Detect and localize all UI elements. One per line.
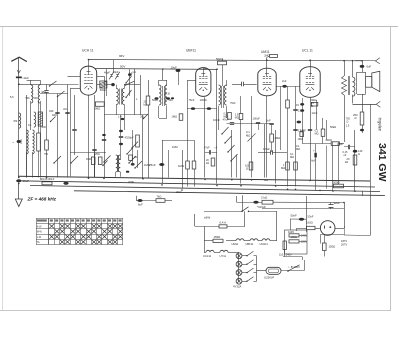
svg-text:50nF: 50nF — [291, 214, 298, 218]
mains plug — [320, 203, 344, 236]
svg-text:TA: TA — [37, 241, 40, 244]
svg-text:UBF11: UBF11 — [246, 242, 254, 246]
svg-text:2MΩ: 2MΩ — [264, 54, 269, 57]
svg-text:10 10: 10 10 — [164, 93, 171, 96]
svg-text:1MΩ: 1MΩ — [86, 158, 91, 161]
svg-text:40pF: 40pF — [104, 71, 110, 75]
wire UBF left pin — [188, 80, 197, 140]
wire bottom bus 3 — [30, 186, 380, 192]
wire x333 drop — [332, 142, 334, 191]
resistor 0.1MΩ diag — [246, 120, 252, 178]
svg-text:6uF: 6uF — [367, 65, 372, 69]
resistor 0.1MΩ b — [281, 162, 289, 170]
wire T2 drops — [159, 106, 168, 119]
trimmer labels band — [104, 71, 145, 119]
coil osc lower pair — [116, 155, 121, 177]
svg-text:500Ω: 500Ω — [100, 89, 106, 92]
cathode resistor cluster — [86, 153, 108, 166]
heater UBF11 — [246, 239, 263, 246]
wire x57 drop — [57, 94, 59, 178]
wire x370 to plug — [344, 234, 370, 237]
resistor 20kΩ b — [206, 158, 215, 166]
capacitor 25nF — [149, 140, 164, 184]
svg-text:kΩ: kΩ — [206, 162, 209, 165]
capacitor 47uF right — [337, 142, 355, 149]
svg-text:MΩ: MΩ — [296, 147, 300, 151]
svg-text:UCH 11: UCH 11 — [82, 49, 94, 53]
resistor 100Ω mains — [297, 220, 321, 231]
wire x275 drop — [275, 130, 277, 184]
IF transformer T3 — [219, 80, 227, 108]
wire y153 link — [70, 153, 106, 177]
svg-text:50V: 50V — [120, 64, 125, 68]
capacitor 6uF bot — [137, 199, 143, 207]
svg-text:780: 780 — [13, 120, 18, 123]
svg-text:100nF: 100nF — [213, 119, 221, 122]
junction dots buses — [88, 177, 90, 179]
wire UCH top — [88, 60, 90, 67]
switch T2 — [144, 114, 149, 119]
wire x132 drop — [132, 130, 134, 163]
capacitor 2nF — [266, 119, 274, 125]
svg-text:1MΩ: 1MΩ — [144, 163, 150, 167]
capacitor 10nF bus — [63, 182, 68, 185]
coil osc feedback box — [97, 81, 112, 92]
capacitor blob 50nF ucl — [297, 121, 301, 124]
capacitor x67 — [65, 112, 69, 114]
svg-text:1,1: 1,1 — [129, 71, 133, 75]
wire x143 drop — [142, 115, 144, 178]
switch lamp 4 — [242, 277, 257, 282]
svg-text:53nF: 53nF — [308, 215, 314, 219]
lamp LP2 — [236, 261, 242, 267]
switch S2 — [58, 91, 65, 97]
wire rail 50V — [95, 68, 217, 71]
resistor 1MΩ diode load — [172, 114, 183, 121]
capacitor 47uF — [223, 118, 235, 125]
dial lamps chain — [238, 252, 240, 281]
svg-text:BF1/Ω 200nF: BF1/Ω 200nF — [40, 178, 55, 181]
svg-text:0000: 0000 — [21, 138, 23, 144]
resistor 7kΩ — [156, 194, 172, 202]
svg-text:Ω: Ω — [246, 167, 248, 171]
voltage selector — [279, 196, 307, 260]
wire T3 drops — [219, 106, 227, 130]
IF transformer T2 — [159, 80, 168, 106]
switch lamp 1 — [242, 251, 257, 256]
resistor 0.1MΩ ucl — [315, 118, 325, 144]
capacitor ant blob — [13, 140, 21, 145]
svg-text:1,5: 1,5 — [346, 125, 350, 128]
wire lamp collector — [256, 256, 258, 281]
IF transformer T1 — [116, 84, 124, 105]
svg-text:7kΩ: 7kΩ — [157, 194, 162, 198]
mid extra labels — [128, 99, 236, 194]
svg-text:kΩ: kΩ — [144, 103, 147, 106]
wire x134 drop — [134, 69, 136, 115]
wire x136 power drop — [136, 196, 156, 201]
wire y123 det — [227, 123, 271, 125]
svg-text:5MΩ: 5MΩ — [95, 106, 101, 110]
svg-text:0,4 A: 0,4 A — [220, 220, 227, 224]
capacitor blobs T2 top — [144, 93, 175, 107]
wire x231 drop — [231, 130, 233, 178]
capacitor 32uF — [262, 201, 344, 209]
fuse 0.4A — [195, 211, 246, 228]
capacitor 4320uF — [119, 115, 134, 160]
resistor 250Ω — [353, 94, 364, 133]
capacitor 0.5uF — [258, 147, 287, 155]
svg-text:UCL11: UCL11 — [203, 254, 212, 258]
junction dots rail — [88, 59, 90, 61]
resistor 2MΩ top — [264, 54, 277, 57]
coil L4 — [27, 130, 29, 178]
switch S2b — [51, 117, 56, 122]
coil L1 — [31, 80, 33, 103]
wire x140 drop — [140, 75, 142, 115]
switch wave2 — [225, 136, 232, 143]
svg-text:7500: 7500 — [41, 126, 47, 129]
svg-text:MΩ: MΩ — [246, 133, 250, 137]
resistor 2MΩ mid — [270, 125, 280, 152]
capacitor 50nF right — [353, 150, 357, 153]
output transformer secondary — [353, 60, 355, 104]
resistor 20kΩ ucl — [311, 99, 318, 115]
svg-text:Ingelen: Ingelen — [378, 118, 383, 132]
resistor x148 — [146, 80, 150, 178]
svg-text:200F: 200F — [128, 180, 134, 184]
capacitor 13nF b — [293, 129, 304, 133]
svg-text:13nF: 13nF — [300, 129, 306, 133]
tube UCH 11 — [80, 49, 96, 96]
svg-text:187V: 187V — [341, 239, 347, 243]
switch wave3 — [228, 145, 235, 152]
wire y84 link — [19, 83, 79, 85]
resistor 100Ω det — [245, 162, 253, 171]
wire T2 top — [162, 69, 164, 80]
wire UCL top — [310, 60, 312, 67]
wire mains top — [204, 211, 242, 213]
wire x242 from bus — [242, 195, 244, 211]
capacitor ant 3uF — [16, 76, 29, 80]
svg-text:±6W: ±6W — [204, 216, 210, 220]
heater UY11 — [220, 250, 240, 258]
svg-text:2uF: 2uF — [282, 79, 287, 83]
wire x137 drop — [137, 150, 139, 168]
svg-text:MΩ: MΩ — [235, 116, 239, 119]
svg-text:500: 500 — [26, 97, 31, 100]
svg-text:32uF: 32uF — [334, 201, 341, 205]
capacitor 2uF avc — [282, 79, 287, 88]
svg-text:341 GW: 341 GW — [376, 143, 388, 182]
wire antenna drop — [18, 78, 20, 178]
capacitor 1.1nF — [128, 69, 136, 96]
resistor 20kΩ — [345, 155, 357, 165]
wire T1 drops — [117, 85, 141, 131]
svg-text:150Ω: 150Ω — [329, 245, 336, 249]
switch S5 — [126, 90, 132, 98]
capacitor 6uF ucl — [311, 144, 317, 191]
svg-text:6uF: 6uF — [138, 203, 143, 207]
wire x204 heater feed — [204, 226, 206, 240]
svg-text:MΩ: MΩ — [281, 166, 285, 170]
antenna — [11, 57, 27, 76]
switch mains — [241, 207, 249, 212]
resistor UCL grid — [294, 162, 298, 170]
svg-text:UCL 11: UCL 11 — [302, 49, 313, 53]
svg-text:MΩ: MΩ — [224, 115, 228, 118]
wire x362 down — [362, 191, 364, 196]
lamp LP3 — [236, 270, 242, 276]
coil osc padder — [34, 112, 43, 127]
svg-text:25Ω: 25Ω — [95, 153, 100, 156]
label 500 osc — [21, 97, 38, 144]
right area verticals — [317, 100, 339, 189]
wire UBF bottom — [204, 97, 206, 177]
left extra labels — [10, 95, 68, 156]
resistor 1MΩ bus — [144, 163, 150, 167]
svg-text:UBF11: UBF11 — [186, 49, 196, 53]
wire x277 drop — [276, 211, 278, 241]
switch S3 — [54, 156, 61, 163]
svg-text:10uF: 10uF — [171, 66, 178, 70]
wire x107 drop — [106, 69, 108, 96]
output secondary loop — [357, 72, 366, 95]
svg-text:50kΩ: 50kΩ — [216, 57, 223, 61]
wire UCH left stub — [68, 76, 81, 78]
right area labels — [296, 101, 363, 157]
wire x117 rail drop — [113, 60, 115, 72]
svg-text:M-W: M-W — [37, 231, 43, 234]
svg-text:750: 750 — [44, 153, 49, 156]
svg-text:kΩ: kΩ — [345, 160, 348, 164]
wire UCL bottom — [310, 97, 312, 180]
switch wave1 — [222, 127, 229, 134]
svg-text:UY11: UY11 — [220, 254, 227, 258]
wire x94 drop — [94, 95, 96, 178]
output transformer core — [349, 76, 350, 95]
svg-text:110V: 110V — [288, 230, 294, 234]
switch wave big — [125, 81, 135, 86]
wire x168 drop — [168, 150, 170, 178]
svg-text:L 4: L 4 — [118, 115, 122, 119]
svg-text:75nF: 75nF — [230, 102, 236, 105]
svg-text:ZF = 468 kHz: ZF = 468 kHz — [27, 196, 57, 201]
svg-text:UM11: UM11 — [232, 242, 239, 246]
wire mains top b — [249, 211, 278, 213]
wire x355 drop — [354, 130, 356, 191]
wire x46 drop — [46, 150, 48, 178]
heater UCL11 — [203, 250, 220, 258]
svg-text:20nF: 20nF — [176, 190, 182, 194]
switch lamp 2 — [242, 260, 257, 265]
svg-text:MΩ: MΩ — [315, 132, 319, 135]
wire UCH bottom — [88, 95, 90, 177]
svg-text:1MΩ: 1MΩ — [172, 115, 178, 119]
connector fork bottom — [376, 101, 380, 107]
wire y93 link — [40, 93, 68, 95]
ucl bottom extra — [300, 129, 312, 133]
svg-text:10uF: 10uF — [23, 179, 30, 183]
svg-text:940: 940 — [49, 109, 54, 113]
capacitor band blob — [121, 118, 125, 120]
heater UM11 — [232, 239, 251, 246]
label 0.1MΩ c — [290, 152, 294, 159]
resistor 2.5MΩ — [235, 96, 243, 184]
svg-text:JUL: JUL — [63, 107, 68, 111]
switch S6 — [126, 76, 132, 83]
tube UBF11 — [186, 49, 211, 97]
heater chain left — [204, 241, 206, 253]
svg-text:155Ω: 155Ω — [214, 235, 221, 239]
svg-text:MΩ: MΩ — [290, 155, 294, 159]
resistor 7500 — [37, 101, 41, 178]
resistor osc bias — [126, 155, 137, 173]
wire x182 drop — [182, 150, 184, 189]
wire y86 net — [276, 86, 300, 88]
resistor 5MΩ — [95, 102, 105, 110]
barretter U25 UP — [257, 267, 305, 279]
connector fork top — [375, 58, 379, 64]
svg-text:1MΩ: 1MΩ — [172, 145, 178, 149]
speaker — [366, 71, 380, 91]
svg-text:207V: 207V — [341, 243, 347, 247]
wire x237 drop — [236, 155, 238, 178]
svg-text:1MΩ: 1MΩ — [298, 138, 303, 141]
svg-text:96V: 96V — [119, 54, 124, 58]
svg-text:Ω: Ω — [311, 104, 313, 108]
resistor mid — [136, 135, 140, 147]
resistor 2kΩ — [237, 196, 345, 210]
svg-text:1Ω: 1Ω — [134, 156, 137, 159]
svg-text:4Y32A: 4Y32A — [233, 285, 242, 289]
switch wave4 — [231, 154, 238, 161]
wire bottom bus 4 — [74, 191, 385, 196]
wire y140 link — [162, 140, 194, 142]
coil ant 780 — [13, 113, 20, 128]
wire y115 link — [104, 114, 148, 116]
resistor 1MΩ b — [192, 140, 196, 187]
svg-text:UCH11: UCH11 — [260, 242, 269, 246]
svg-text:0,1: 0,1 — [28, 123, 32, 127]
svg-text:uF: uF — [344, 154, 347, 157]
wire top rail 96V — [88, 60, 362, 61]
svg-text:Ω: Ω — [355, 116, 357, 120]
wire y103 link — [353, 104, 377, 106]
resistor R5 — [45, 140, 49, 150]
resistor 155Ω — [213, 235, 223, 243]
svg-text:100Ω: 100Ω — [306, 220, 313, 224]
resistor EF block — [40, 178, 55, 185]
capacitor det — [232, 82, 257, 86]
wire UCL cathode — [296, 98, 304, 144]
lamp LP4 — [236, 278, 242, 284]
heater UCH11 — [260, 239, 278, 246]
resistor 50kΩ — [216, 57, 227, 86]
capacitor 6uF out — [360, 61, 372, 72]
tube UM11 — [258, 50, 276, 96]
switch S1 — [50, 81, 57, 86]
switch S4 — [71, 156, 78, 163]
svg-text:UM11: UM11 — [261, 50, 270, 54]
wire x370 long drop — [370, 104, 372, 235]
resistor 500Ω bot — [333, 180, 344, 188]
resistor 10kΩ — [286, 86, 290, 186]
svg-text:940: 940 — [52, 113, 57, 117]
resistor 1MΩ ucl — [298, 132, 304, 141]
switch osc b — [132, 142, 138, 149]
svg-text:100nF: 100nF — [200, 98, 208, 102]
resistor 1MΩ a — [178, 140, 189, 187]
lamp LP1 — [236, 253, 242, 259]
svg-text:500: 500 — [34, 97, 39, 100]
capacitor 10uF ubf — [171, 66, 181, 86]
wire x280 drop — [280, 86, 282, 150]
svg-text:13nF: 13nF — [312, 111, 318, 115]
wire bottom bus 1 — [18, 176, 370, 181]
capacitor grid blobs — [119, 130, 123, 145]
heater chain top — [204, 240, 232, 242]
svg-text:U25/UP: U25/UP — [264, 276, 274, 280]
wire bottom bus 2 — [18, 181, 375, 187]
svg-text:∟B 240V: ∟B 240V — [288, 265, 300, 269]
svg-text:50kΩ: 50kΩ — [330, 125, 336, 129]
switch voltage — [287, 265, 300, 272]
svg-text:100uF: 100uF — [253, 117, 261, 121]
coil L3 osc — [33, 130, 35, 178]
capacitor 13nF — [293, 86, 304, 186]
capacitor 940 — [52, 113, 60, 118]
left bottom caps — [92, 134, 106, 178]
svg-text:≈3uF: ≈3uF — [22, 76, 29, 80]
svg-text:130Ω: 130Ω — [291, 235, 297, 239]
capacitor 100uF det — [253, 117, 261, 131]
switch osc a — [127, 148, 133, 155]
svg-text:Ω: Ω — [347, 120, 349, 123]
coil L2 — [38, 80, 40, 103]
svg-text:2 kΩ: 2 kΩ — [261, 196, 268, 200]
tube UCL 11 — [300, 49, 320, 98]
wire UM top — [267, 56, 270, 69]
wire x101 drop — [104, 91, 106, 178]
svg-text:1MΩ: 1MΩ — [178, 164, 184, 168]
wire UM bottom — [266, 96, 268, 178]
capacitor 75nF 100nF — [187, 98, 217, 110]
svg-text:⌐A: ⌐A — [214, 147, 217, 150]
wire UCH right pin — [97, 76, 105, 91]
switch left small — [104, 156, 111, 163]
trimmer 40pF b — [115, 72, 120, 80]
svg-text:5,6: 5,6 — [10, 95, 14, 99]
svg-text:110…240V: 110…240V — [279, 253, 292, 257]
switch band1 — [129, 156, 136, 163]
svg-text:47uF: 47uF — [204, 147, 210, 150]
capacitor 47uF A — [204, 147, 217, 155]
capacitor 50nF — [290, 214, 314, 231]
wire x67 drop — [67, 85, 69, 178]
waveband table — [36, 218, 123, 244]
wire x265 drop — [264, 124, 266, 178]
switch band2 — [135, 161, 142, 168]
svg-text:75nF: 75nF — [189, 98, 195, 102]
trimmer 40pF a — [109, 72, 114, 80]
wire left links — [27, 81, 41, 178]
svg-text:25nF: 25nF — [149, 163, 156, 167]
wire x304 up — [304, 260, 306, 271]
svg-text:K-W: K-W — [37, 225, 42, 228]
svg-text:L-W: L-W — [37, 236, 42, 239]
volume pot arrow — [248, 96, 256, 142]
